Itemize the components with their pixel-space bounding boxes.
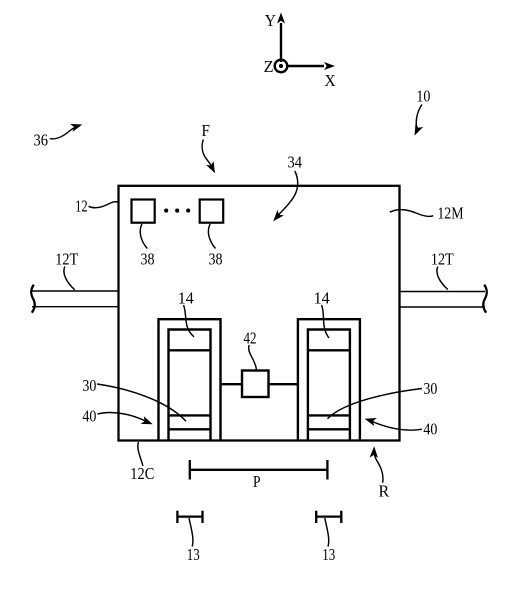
svg-text:R: R: [378, 482, 389, 501]
svg-text:38: 38: [141, 250, 155, 269]
leader line for 42: [249, 345, 257, 370]
svg-text:30: 30: [82, 376, 96, 395]
svg-text:12C: 12C: [130, 464, 154, 483]
leader line for 30 left: [97, 384, 186, 421]
leader line for 13 right: [325, 518, 329, 547]
nozzle square 38 right: [200, 200, 224, 223]
svg-text:14: 14: [314, 289, 330, 308]
leader line for 14 left: [184, 305, 195, 337]
Z-axis symbol circle with dot: [275, 60, 288, 73]
svg-text:13: 13: [187, 545, 200, 564]
svg-text:40: 40: [82, 407, 96, 426]
svg-text:40: 40: [423, 420, 437, 439]
leader line for 12: [89, 202, 119, 208]
leader arrow for R: [370, 446, 383, 483]
connecting line right of 42: [269, 383, 298, 385]
connecting line left of 42: [222, 383, 242, 385]
nozzle square 38 left: [132, 200, 155, 223]
svg-text:X: X: [325, 71, 336, 90]
svg-text:F: F: [202, 121, 210, 140]
holder outer wall left (40): [159, 319, 221, 440]
connector square 42: [242, 371, 269, 398]
leader arrow for F: [202, 140, 219, 176]
Y-axis arrow: [277, 13, 285, 63]
leader line for 12T left: [64, 267, 75, 290]
X-axis arrow: [286, 62, 335, 70]
leader arrow for 36: [50, 120, 84, 138]
main body rectangle 12: [119, 186, 400, 441]
leader line for 12T right: [437, 267, 448, 290]
leader line for 14 right: [322, 305, 330, 338]
rail 12T left: [31, 285, 118, 313]
rail 12T right: [401, 285, 487, 313]
cartridge 30 left: [169, 330, 211, 441]
bracket 13 left: [177, 511, 202, 523]
svg-text:12M: 12M: [437, 204, 463, 223]
leader line for 30 right: [328, 389, 423, 419]
ellipsis dots: [164, 209, 190, 213]
leader arrow for 40 right: [363, 415, 422, 430]
leader arrow for 34: [270, 171, 298, 224]
svg-text:10: 10: [416, 87, 430, 106]
leader line for 13 left: [189, 518, 193, 547]
leader arrow for 40 left: [98, 412, 155, 428]
svg-text:12T: 12T: [431, 249, 454, 268]
svg-text:P: P: [253, 472, 261, 491]
svg-text:13: 13: [322, 545, 335, 564]
leader line for 12M: [390, 210, 433, 217]
leader arrow for 10: [411, 105, 423, 138]
svg-text:Z: Z: [264, 57, 274, 76]
svg-text:36: 36: [33, 131, 48, 150]
holder outer wall right (40): [298, 319, 360, 440]
leader line for 12C: [138, 442, 143, 466]
svg-text:30: 30: [423, 379, 437, 398]
svg-text:12T: 12T: [55, 250, 78, 269]
svg-text:12: 12: [75, 196, 88, 215]
svg-text:34: 34: [288, 152, 303, 171]
svg-text:42: 42: [244, 328, 257, 347]
cartridge 30 right: [308, 330, 350, 441]
leader line for 38 left: [140, 224, 147, 249]
svg-text:14: 14: [178, 289, 194, 308]
dimension line P: [190, 460, 328, 480]
svg-text:Y: Y: [265, 11, 276, 30]
leader line for 38 right: [208, 224, 215, 249]
bracket 13 right: [316, 511, 341, 523]
svg-text:38: 38: [209, 250, 223, 269]
